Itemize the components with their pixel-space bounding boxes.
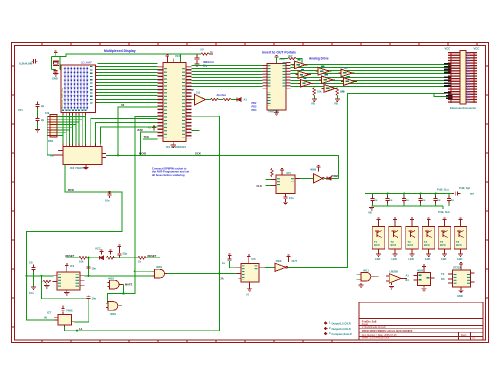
svg-text:LED: LED	[409, 257, 414, 261]
svg-text:RESET: RESET	[148, 254, 157, 258]
pin texts IC6	[242, 265, 245, 280]
capacitor C12 left of IC6	[228, 254, 232, 259]
junction H1/V1	[218, 154, 220, 156]
wire bus matrix rows to MCU	[98, 64, 158, 103]
J1 left pin cross bar	[450, 52, 451, 103]
buffer T8	[339, 67, 355, 76]
MCU right pin names	[182, 67, 185, 138]
svg-text:GND: GND	[52, 76, 58, 80]
svg-text:BCX: BCX	[408, 243, 414, 247]
power VCC D1	[100, 250, 104, 255]
svg-text:LED: LED	[457, 257, 462, 261]
svg-text:LD_MAT: LD_MAT	[81, 60, 92, 64]
svg-text:1u: 1u	[437, 198, 440, 202]
wire V2	[288, 94, 445, 268]
svg-text:PWM: PWM	[332, 174, 338, 178]
capacitor C7	[117, 249, 121, 258]
svg-text:BCX: BCX	[391, 243, 397, 247]
AND gate G1	[109, 280, 119, 289]
capacitor bank C11-C16	[370, 196, 454, 204]
svg-text:PrtB_SLa: PrtB_SLa	[437, 188, 449, 192]
svg-text:VB: VB	[311, 102, 315, 106]
IC6 555 body	[241, 263, 259, 281]
junction V3/H1	[134, 154, 136, 156]
transistor Q4	[422, 227, 435, 250]
power VCC IC4	[65, 264, 69, 269]
power VCC MCU	[166, 54, 170, 59]
svg-text:4MHz Int: 4MHz Int	[203, 60, 214, 64]
svg-text:RN1: RN1	[48, 139, 54, 143]
wire rail bottom	[372, 206, 443, 209]
svg-text:BCX: BCX	[374, 243, 380, 247]
IC3 lower pin names	[267, 92, 270, 106]
svg-text:Invert to OUT Portals: Invert to OUT Portals	[262, 51, 296, 55]
svg-text:10k: 10k	[317, 90, 322, 94]
transistor Q2	[389, 227, 402, 250]
wire T11 out	[401, 277, 407, 279]
svg-text:MUTE: MUTE	[125, 283, 133, 287]
svg-text:CLK: CLK	[257, 184, 262, 188]
buffer T3	[295, 69, 311, 78]
pin texts IC5	[277, 178, 280, 187]
resistor R3 pulldown	[336, 88, 339, 96]
IC4 555 body	[57, 272, 80, 290]
wire T10 out	[324, 178, 327, 180]
wire cap bank stubs	[373, 194, 450, 207]
IC5 left pins	[271, 180, 276, 186]
transistor Q6	[454, 227, 467, 250]
wires RN1 to columns	[57, 117, 85, 136]
svg-text:0,2k/4,9M: 0,2k/4,9M	[19, 61, 33, 65]
svg-text:B1: B1	[406, 278, 410, 282]
power VCC IC3	[275, 55, 279, 60]
svg-text:1u: 1u	[422, 198, 425, 202]
IC7 left pins	[54, 317, 58, 320]
IC6 top pin	[248, 259, 250, 264]
IC2 74HC595 body	[63, 147, 102, 165]
svg-text:X2: X2	[121, 103, 125, 107]
svg-text:A1: A1	[244, 98, 248, 102]
inverter T10	[313, 174, 322, 184]
svg-text:A1: A1	[406, 274, 410, 278]
svg-text:IC4: IC4	[70, 264, 75, 268]
IC5 555 body	[276, 175, 295, 193]
wire C2-C3	[37, 109, 39, 130]
svg-text:VB: VB	[368, 211, 372, 215]
J1 left pins	[448, 52, 460, 103]
IC3 74HC240 body	[267, 64, 286, 110]
connector J1 body	[460, 51, 466, 104]
svg-text:BCX: BCX	[456, 243, 462, 247]
svg-text:1u: 1u	[374, 198, 377, 202]
svg-text:PrtB_SLb: PrtB_SLb	[438, 210, 450, 214]
svg-text:PD4: PD4	[252, 109, 257, 112]
svg-text:4069: 4069	[310, 168, 316, 172]
svg-text:IN: IN	[44, 316, 47, 320]
transistor Q5	[438, 227, 451, 250]
wire into IC4	[27, 275, 54, 277]
svg-text:PrtB_Spt: PrtB_Spt	[459, 186, 470, 190]
svg-text:Ain Out: Ain Out	[217, 93, 227, 97]
AND gate G2	[155, 269, 165, 278]
capacitor C10 at corner	[87, 296, 91, 299]
node flag 3	[324, 332, 328, 335]
resistor R7 + cap left	[43, 280, 51, 283]
IC4 right pins	[80, 276, 85, 286]
svg-text:311: 311	[196, 91, 201, 95]
op-amp T11	[389, 274, 401, 284]
wire IC6 to T12	[265, 266, 275, 268]
svg-text:LED: LED	[425, 257, 430, 261]
svg-text:MATRIX_8X8_RG: MATRIX_8X8_RG	[60, 88, 64, 109]
junctions on rail	[387, 193, 389, 195]
buffer T7	[322, 83, 338, 92]
resistor R5	[107, 256, 115, 259]
ground stub IC2	[85, 165, 87, 168]
wire G4 to T11	[371, 276, 379, 278]
svg-text:Multiplexed Display: Multiplexed Display	[104, 49, 136, 53]
svg-text:BCX: BCX	[440, 243, 446, 247]
svg-text:Output1,2,CH,R: Output1,2,CH,R	[332, 322, 351, 326]
J1 pin numbers	[467, 52, 470, 102]
ground below C3	[35, 130, 40, 132]
svg-text:JUM: JUM	[137, 128, 142, 132]
svg-text:4081: 4081	[110, 312, 116, 316]
wire G2 input from V3	[135, 270, 153, 272]
LED matrix dot grid	[63, 67, 88, 110]
IC7 top cap	[61, 305, 64, 314]
matrix bottom pin names	[62, 110, 86, 112]
wire G2 output	[165, 273, 168, 275]
power VCC crystal	[54, 51, 58, 56]
IC6 right pin	[259, 266, 265, 268]
svg-text:IC1 AT90S2313: IC1 AT90S2313	[166, 145, 186, 149]
svg-text:4011: 4011	[363, 268, 369, 272]
power VCC T12	[287, 255, 291, 260]
buffer T2	[292, 59, 308, 68]
wire V1 MCU to bottom rail	[65, 116, 220, 331]
wire reset junction down	[88, 258, 90, 276]
wire driver bottom loop	[27, 165, 123, 321]
svg-text:LED: LED	[441, 257, 446, 261]
wire second bottom line	[434, 94, 452, 97]
RN1 left pins	[48, 117, 51, 136]
IC3 right pins	[286, 62, 291, 88]
crystal Q1	[53, 61, 59, 66]
IC4 bottom ground	[66, 290, 68, 292]
wire V3	[124, 117, 158, 294]
pin texts IC8	[419, 275, 422, 276]
frame inner border	[14, 45, 485, 340]
svg-text:22p: 22p	[203, 65, 208, 68]
wire crystal loop	[52, 52, 64, 70]
svg-text:5V: 5V	[201, 48, 204, 52]
IC2 top pins	[63, 144, 100, 147]
diode D1	[100, 256, 104, 260]
node flag 2	[324, 327, 328, 330]
svg-text:ExtensionConnector: ExtensionConnector	[450, 106, 476, 110]
svg-text:Compare,Sum,R: Compare,Sum,R	[332, 332, 352, 336]
IC3 left pins	[262, 65, 267, 89]
svg-text:Analog Drive: Analog Drive	[309, 56, 329, 60]
svg-text:10n: 10n	[92, 296, 97, 300]
svg-text:10k: 10k	[79, 259, 84, 263]
wire bus MCU to IC3	[192, 66, 263, 87]
MCU left pin row	[158, 67, 164, 139]
svg-text:VCC: VCC	[95, 247, 101, 251]
wire T1 output	[206, 99, 238, 101]
svg-text:1u: 1u	[389, 198, 392, 202]
junction test point	[108, 191, 110, 193]
svg-text:VCC: VCC	[445, 47, 451, 51]
MCU IC1 body	[163, 63, 186, 142]
diode D3	[327, 177, 331, 181]
net labels group 2	[444, 77, 451, 87]
wire G3 output stub	[118, 305, 123, 307]
wire G1 output	[119, 284, 124, 286]
AND gate G4	[361, 272, 371, 281]
buffer T9	[341, 76, 357, 85]
svg-text:1A: 1A	[79, 327, 82, 331]
capacitor C17 right end	[452, 192, 460, 196]
MCU left pin names	[164, 67, 167, 138]
wire reset net	[65, 257, 160, 259]
svg-text:BCX: BCX	[424, 243, 430, 247]
pin texts IC9	[454, 272, 457, 284]
capacitor C3	[35, 116, 39, 124]
wire branch right of clock	[181, 53, 202, 55]
resistor R4	[79, 256, 87, 259]
svg-text:IC6: IC6	[252, 257, 257, 261]
svg-text:SCK: SCK	[195, 152, 201, 156]
svg-text:OUT: OUT	[292, 259, 298, 263]
svg-text:10n: 10n	[92, 267, 97, 271]
transistor Q1	[372, 227, 385, 250]
resistor R11	[201, 53, 209, 56]
buffer T4	[298, 78, 314, 87]
wire G1 loop to G3	[106, 285, 124, 304]
svg-text:RCK: RCK	[68, 188, 74, 192]
IC4 left pins	[53, 276, 57, 282]
transistor Q3	[406, 227, 419, 250]
matrix right pin stubs	[96, 67, 98, 103]
resistor R8	[211, 98, 219, 101]
matrix bottom pin stubs	[63, 112, 85, 115]
node flag 1	[324, 321, 328, 324]
resistor R1 top	[288, 57, 296, 60]
capacitor C9 below IC5	[283, 194, 287, 202]
resistor R10 left	[271, 169, 274, 177]
svg-text:C8: C8	[29, 261, 33, 265]
diode D2	[237, 98, 241, 102]
MCU right stub wire	[192, 130, 200, 132]
svg-text:ST232: ST232	[453, 266, 461, 270]
power VCC T10	[317, 165, 321, 170]
wire rail top	[365, 193, 452, 195]
svg-text:10n: 10n	[289, 196, 294, 200]
capacitor C8	[31, 265, 35, 273]
matrix right pin names	[90, 66, 93, 104]
title block outline	[359, 302, 483, 340]
wires MCU lower left pins to driver top	[91, 118, 158, 143]
svg-text:TCK: TCK	[144, 135, 149, 139]
junction reset	[87, 257, 89, 259]
ground C5	[194, 64, 199, 66]
wire crystal to MCU clock input	[60, 54, 181, 63]
net labels group 3	[444, 92, 453, 99]
svg-text:LED: LED	[392, 257, 397, 261]
wire matrix columns down to driver	[63, 115, 85, 147]
resistor R6	[138, 256, 146, 259]
MCU top pins	[167, 59, 173, 63]
IC2 left pin	[53, 151, 64, 155]
capacitor C11 on vertical	[87, 267, 91, 269]
svg-text:TP: TP	[191, 89, 195, 92]
svg-text:C:\fredis\fredis-brd.sch: C:\fredis\fredis-brd.sch	[362, 326, 387, 329]
svg-text:LM358: LM358	[390, 269, 399, 273]
IC7 bottom pin	[64, 325, 66, 327]
svg-text:2p: 2p	[41, 118, 45, 122]
capacitor C4 on loop	[108, 192, 112, 198]
wire JUM net with vertical	[140, 132, 157, 156]
IC3 pin names	[267, 65, 270, 88]
svg-text:VCC: VCC	[474, 47, 480, 51]
wire bus IC3 to connector	[291, 65, 451, 87]
resistor network RN1 body	[50, 115, 57, 138]
svg-text:Sheet: 1/1 of FREDIS.sch: Sheet: 1/1 of FREDIS.sch	[362, 337, 390, 340]
IC7 right pin	[72, 321, 75, 323]
IC9 body	[453, 270, 471, 287]
ground rail	[369, 208, 374, 210]
svg-text:FRED MOD FREDIS LOCAL BUS 8X2/: FRED MOD FREDIS LOCAL BUS 8X2/8X3	[362, 329, 413, 333]
IC5 right pin to T10	[295, 178, 300, 180]
wire TX stub	[143, 138, 158, 140]
junction V1/G2out	[218, 273, 220, 275]
svg-text:Rev1: Rev1	[461, 334, 467, 337]
svg-text:GND: GND	[457, 294, 463, 298]
capacitor C5	[195, 54, 200, 64]
pin texts IC4	[58, 275, 61, 288]
wire X net with vertical	[118, 107, 158, 156]
svg-text:IC2 74HC595: IC2 74HC595	[70, 166, 87, 170]
svg-text:10n: 10n	[105, 199, 110, 203]
junction left vertical at IC3 input	[25, 275, 27, 277]
svg-text:22p: 22p	[123, 252, 128, 256]
J1 right pin cross bar	[474, 52, 475, 103]
net labels group 1	[444, 63, 451, 73]
wire MCU to T1	[192, 99, 195, 101]
svg-text:VB: VB	[334, 102, 338, 106]
svg-text:4081: 4081	[108, 276, 114, 280]
LED matrix DIS1 body	[61, 65, 96, 112]
svg-text:MOSI: MOSI	[139, 152, 146, 156]
svg-text:4081: 4081	[156, 265, 162, 269]
svg-text:Output3,4,CH,R: Output3,4,CH,R	[332, 327, 351, 331]
inverter T12	[275, 263, 286, 271]
IC8 body	[418, 273, 431, 286]
svg-text:VB: VB	[341, 89, 345, 93]
svg-text:10n: 10n	[29, 291, 34, 295]
IC6 left pins	[237, 268, 241, 279]
svg-text:74HC240: 74HC240	[268, 110, 280, 114]
buffer T5	[316, 66, 332, 75]
power VCC IC5	[280, 168, 284, 173]
svg-text:2A: 2A	[221, 277, 224, 280]
IC2 right pins	[102, 154, 106, 158]
MCU bottom pin and ground	[172, 142, 174, 145]
ground below C1	[53, 74, 58, 76]
svg-text:74HC: 74HC	[66, 309, 73, 313]
capacitor C1 below crystal	[54, 70, 58, 74]
crystal pin plates	[32, 59, 38, 64]
svg-text:4069: 4069	[276, 259, 282, 263]
wire IC4 out to G2	[85, 275, 153, 277]
svg-text:LED: LED	[375, 257, 380, 261]
resistor R2 pulldown	[313, 88, 316, 96]
svg-text:1u: 1u	[222, 261, 225, 265]
power VCC near MCU pin	[152, 126, 156, 131]
svg-text:VCC: VCC	[175, 54, 181, 58]
frame outer border	[11, 43, 488, 343]
svg-text:4k7: 4k7	[288, 54, 293, 58]
svg-text:1k: 1k	[138, 259, 141, 263]
svg-text:ant: ant	[470, 191, 474, 195]
svg-text:IC7: IC7	[47, 311, 52, 315]
svg-text:all fuses before soldering: all fuses before soldering	[152, 173, 185, 177]
svg-text:1u: 1u	[451, 198, 454, 202]
svg-text:4093: 4093	[417, 268, 423, 272]
wire vertical feed left of driver	[47, 117, 52, 155]
wire H1 serial data	[106, 155, 338, 178]
frame section tick marks	[11, 43, 488, 343]
svg-text:IC5: IC5	[287, 171, 292, 175]
IC6 bottom ground	[249, 282, 251, 289]
resistor R9	[223, 98, 231, 101]
MCU right pin row	[186, 67, 192, 139]
IC7 body	[58, 315, 72, 326]
op-amp T1	[195, 94, 206, 105]
svg-text:TX: TX	[441, 272, 445, 276]
buffer T6	[319, 74, 335, 83]
svg-text:10k: 10k	[45, 111, 50, 115]
svg-text:1u: 1u	[406, 198, 409, 202]
J1 right pins	[466, 52, 477, 103]
svg-text:2p: 2p	[41, 104, 45, 108]
svg-text:RX: RX	[441, 277, 445, 281]
svg-text:OE: OE	[50, 154, 54, 158]
wire V4	[42, 276, 89, 322]
AND gate G3	[108, 302, 118, 311]
capacitor C2	[35, 102, 39, 110]
svg-text:VCC: VCC	[279, 57, 285, 61]
svg-text:XT1: XT1	[18, 108, 23, 112]
ground IC3	[276, 110, 278, 113]
